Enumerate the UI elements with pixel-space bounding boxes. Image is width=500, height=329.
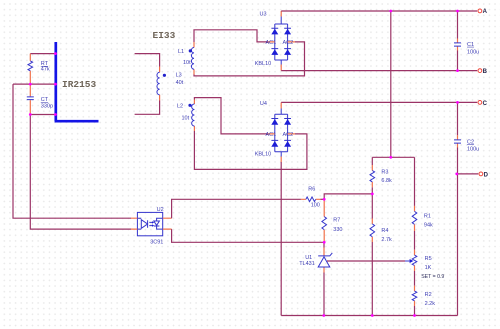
potentiometer R5 1K bbox=[412, 250, 444, 280]
wire C2 bottom through terminal D node to bottom rail bbox=[457, 148, 459, 316]
svg-text:AC1: AC1 bbox=[266, 40, 277, 46]
svg-text:100u: 100u bbox=[467, 147, 479, 153]
resistor R7 bbox=[322, 199, 343, 242]
svg-text:KBL10: KBL10 bbox=[255, 152, 272, 158]
wire left vertical to optocoupler bbox=[13, 84, 131, 218]
wire R4 bottom to bottom rail bbox=[371, 242, 373, 316]
svg-text:U2: U2 bbox=[157, 207, 164, 213]
svg-text:EI33: EI33 bbox=[153, 30, 176, 41]
svg-text:40t: 40t bbox=[176, 80, 184, 86]
resistor RT bbox=[28, 54, 50, 85]
shunt regulator U1 TL431 bbox=[299, 242, 332, 272]
svg-text:L1: L1 bbox=[178, 49, 184, 55]
wire L1 top to bridge U3 AC1 bbox=[194, 30, 268, 42]
capacitor CT bbox=[27, 84, 53, 114]
wire R2 bottom to bottom rail bbox=[414, 306, 416, 316]
wire R1 to R5 bbox=[414, 231, 416, 250]
wire TL431 ref to R5 wiper bbox=[327, 260, 405, 262]
svg-text:10t: 10t bbox=[182, 116, 190, 122]
svg-text:R2: R2 bbox=[425, 292, 432, 298]
svg-text:D: D bbox=[484, 172, 489, 178]
wire divider rail R3 to R1 bbox=[372, 156, 414, 158]
svg-text:R3: R3 bbox=[381, 170, 388, 176]
node bottom rail / R2 bbox=[413, 314, 416, 317]
wire C1 top bbox=[457, 11, 459, 39]
svg-text:AC2: AC2 bbox=[283, 132, 294, 138]
wire terminal D branch bbox=[457, 173, 478, 175]
wire L1 bottom to bridge U3 AC2 bbox=[194, 42, 305, 76]
bridge rectifier U4 KBL10 bbox=[255, 101, 295, 162]
wire C1 bottom to rail B bbox=[457, 51, 459, 71]
wire bottom rail bbox=[281, 315, 457, 317]
inductor L3 primary winding bbox=[157, 67, 184, 101]
resistor R6 bbox=[301, 186, 321, 208]
inductor L1 secondary winding bbox=[178, 42, 194, 75]
svg-text:2.2k: 2.2k bbox=[425, 301, 436, 307]
node sense bus / divider rail bbox=[389, 156, 392, 159]
node wire end at IR2153 top bbox=[54, 52, 57, 55]
potentiometer R5 wiper arrow bbox=[405, 260, 410, 262]
resistor R4 bbox=[370, 219, 392, 243]
capacitor C2 bbox=[454, 135, 479, 152]
terminal A bbox=[478, 9, 488, 15]
node CT bottom junction bbox=[29, 113, 32, 116]
wire R1 top bbox=[414, 157, 416, 206]
svg-text:2.7k: 2.7k bbox=[381, 237, 392, 243]
wire L2 top to bridge U4 AC1 bbox=[194, 98, 267, 134]
resistor R1 bbox=[412, 206, 433, 231]
svg-text:U1: U1 bbox=[305, 255, 312, 261]
wire R5 to R2 bbox=[414, 271, 416, 286]
wire TL431 anode to bottom rail bbox=[323, 273, 325, 316]
svg-text:C: C bbox=[483, 101, 488, 107]
wire CT bottom to IR2153 corner bbox=[30, 114, 55, 116]
svg-text:AC2: AC2 bbox=[283, 40, 294, 46]
node rail A / sense bus bbox=[389, 10, 392, 13]
bridge rectifier U3 KBL10 bbox=[255, 11, 295, 71]
terminal D bbox=[479, 172, 489, 178]
svg-text:L3: L3 bbox=[176, 73, 182, 79]
svg-text:100: 100 bbox=[311, 202, 320, 208]
svg-text:TL431: TL431 bbox=[299, 261, 315, 267]
svg-text:R5: R5 bbox=[425, 256, 432, 262]
svg-text:AC1: AC1 bbox=[266, 132, 277, 138]
svg-text:330p: 330p bbox=[41, 103, 53, 109]
svg-text:1K: 1K bbox=[425, 265, 432, 271]
svg-text:KBL10: KBL10 bbox=[255, 61, 272, 67]
svg-text:3C91: 3C91 bbox=[150, 240, 163, 246]
svg-text:10t: 10t bbox=[183, 60, 191, 66]
wire primary top open end bbox=[135, 54, 160, 67]
wire rail B from bridge U3 minus bbox=[281, 70, 477, 72]
node bottom rail / TL431 bbox=[322, 314, 325, 317]
svg-text:B: B bbox=[483, 69, 488, 75]
svg-text:100u: 100u bbox=[467, 49, 479, 55]
svg-text:R6: R6 bbox=[308, 186, 315, 192]
wire CT bottom down to optocoupler pin 2 bbox=[30, 115, 131, 230]
node rail A / C1 bbox=[456, 10, 459, 13]
svg-text:C1: C1 bbox=[467, 42, 474, 48]
svg-text:R4: R4 bbox=[381, 228, 388, 234]
node wire end at IR2153 corner bbox=[54, 113, 57, 116]
wire rail A from bridge U3 plus bbox=[281, 10, 477, 12]
wire R6 to R7 junction bbox=[320, 198, 324, 200]
node rail C / C2 bbox=[456, 101, 459, 104]
wire jog from R7 node to R3/R4 node bbox=[324, 194, 372, 199]
svg-text:CT: CT bbox=[41, 97, 49, 103]
node wire end at IR2153 mid bbox=[54, 83, 57, 86]
wire opto collector up and right to R6 bbox=[172, 199, 301, 218]
svg-text:6.8k: 6.8k bbox=[381, 178, 392, 184]
wire RT top to IR2153 bbox=[30, 53, 55, 55]
node RT/CT junction bbox=[29, 83, 32, 86]
svg-text:C2: C2 bbox=[467, 139, 474, 145]
node rail B / C1 bbox=[456, 69, 459, 72]
node terminal D branch bbox=[455, 173, 458, 176]
node R3/R4 junction bbox=[371, 193, 374, 196]
svg-text:IR2153: IR2153 bbox=[62, 79, 97, 90]
svg-text:R1: R1 bbox=[424, 213, 431, 219]
resistor R3 bbox=[370, 165, 392, 187]
svg-text:SET = 0.9: SET = 0.9 bbox=[421, 274, 444, 280]
svg-text:94k: 94k bbox=[424, 223, 433, 229]
wire L2 bottom to bridge U4 AC2 bbox=[194, 131, 307, 169]
svg-text:R7: R7 bbox=[333, 218, 340, 224]
svg-text:47k: 47k bbox=[41, 66, 50, 72]
node bottom rail / R4 bbox=[371, 314, 374, 317]
wire R3 top from divider rail bbox=[371, 157, 373, 165]
op-amp U1? no: IC IR2153 edge lines bbox=[55, 42, 99, 121]
svg-text:L2: L2 bbox=[177, 104, 183, 110]
wire rail C from bridge U4 plus bbox=[281, 101, 477, 103]
capacitor C1 bbox=[454, 39, 479, 56]
terminal B bbox=[478, 69, 488, 75]
svg-text:U4: U4 bbox=[260, 101, 267, 107]
node R6/R7 junction bbox=[323, 198, 326, 201]
terminal C bbox=[478, 101, 488, 107]
svg-text:330: 330 bbox=[333, 227, 342, 233]
node R7/TL431 junction bbox=[323, 241, 326, 244]
wire opto emitter down and right to TL431 node bbox=[172, 229, 325, 242]
wire bridge U4 minus down to bottom rail bbox=[280, 162, 282, 316]
inductor L2 secondary winding bbox=[177, 100, 194, 132]
svg-text:A: A bbox=[483, 9, 488, 15]
optocoupler U2 3C91 bbox=[131, 207, 172, 246]
resistor R2 bbox=[412, 286, 435, 307]
wire primary bottom open end bbox=[135, 101, 160, 115]
wire C2 top from rail C bbox=[457, 102, 459, 135]
wire sense bus from rail A down to divider bbox=[390, 11, 392, 157]
wire mid junction to IR2153 bbox=[13, 83, 55, 85]
svg-text:U3: U3 bbox=[260, 12, 267, 18]
wire R3 bottom through node to R4 top bbox=[371, 187, 373, 218]
